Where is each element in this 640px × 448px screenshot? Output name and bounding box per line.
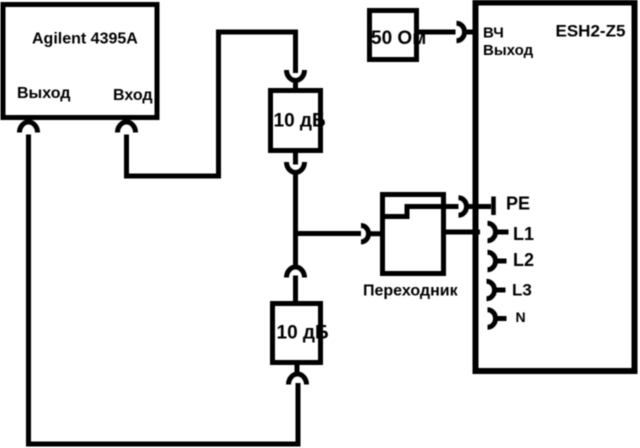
pin A2 bottom	[295, 365, 300, 374]
stub RF output	[464, 30, 474, 35]
svg-text:N: N	[516, 309, 526, 325]
svg-text:ВЧ: ВЧ	[483, 25, 504, 42]
connector N	[488, 310, 496, 328]
connector J1 output	[20, 122, 38, 132]
wire junction to adapter	[296, 231, 362, 236]
wire 50 Ohm to ESH2	[417, 30, 456, 35]
adapter box	[383, 195, 444, 274]
connector A2 bottom	[289, 374, 307, 385]
attenuator box A1 10 dB	[271, 91, 321, 151]
connector L2	[488, 252, 496, 270]
svg-text:50 Ом: 50 Ом	[371, 28, 426, 49]
svg-text:Agilent 4395A: Agilent 4395A	[32, 31, 138, 48]
analyzer box Agilent 4395A	[3, 5, 157, 118]
svg-text:PE: PE	[506, 194, 530, 214]
svg-text:Вход: Вход	[113, 87, 153, 104]
connector RF output	[457, 23, 465, 41]
stub L2	[495, 259, 507, 264]
svg-text:10 дБ: 10 дБ	[277, 323, 329, 344]
pin A1 bottom	[293, 150, 298, 165]
connector L1	[488, 223, 496, 241]
wire A1 to A2 vertical	[293, 172, 298, 266]
pin A2 top	[293, 276, 298, 302]
svg-text:ESH2-Z5: ESH2-Z5	[556, 22, 626, 41]
svg-text:L3: L3	[512, 281, 532, 300]
svg-text:Выход: Выход	[483, 42, 534, 59]
svg-text:Переходник: Переходник	[363, 283, 459, 300]
adapter step line to PE	[382, 207, 459, 217]
svg-text:Выход: Выход	[17, 85, 70, 102]
stub PE through wall	[466, 204, 491, 209]
connector J2 input	[118, 122, 136, 132]
stub L1	[495, 230, 509, 235]
stub N	[495, 316, 507, 321]
svg-text:10 дБ: 10 дБ	[274, 111, 326, 132]
PE tick bar	[491, 197, 496, 216]
stub adapter input	[368, 231, 381, 236]
box 50 Ohm load	[370, 11, 417, 60]
svg-text:L2: L2	[513, 250, 534, 270]
stub L3	[494, 288, 506, 293]
wire adapter to L1	[444, 230, 480, 235]
wire input to attenuator A1	[127, 32, 296, 176]
svg-text:L1: L1	[513, 224, 534, 244]
attenuator box A2 10 dB	[273, 304, 321, 363]
connector adapter input	[361, 226, 369, 243]
connector L3	[487, 281, 495, 299]
wire output down-bottom-right	[29, 135, 299, 445]
connector A1 bottom	[287, 162, 305, 172]
connector A2 top	[287, 267, 305, 277]
connector A1 top	[287, 70, 305, 80]
connector PE	[459, 198, 467, 216]
stub A1 top	[293, 80, 298, 92]
box ESH2-Z5 receiver	[476, 3, 635, 372]
